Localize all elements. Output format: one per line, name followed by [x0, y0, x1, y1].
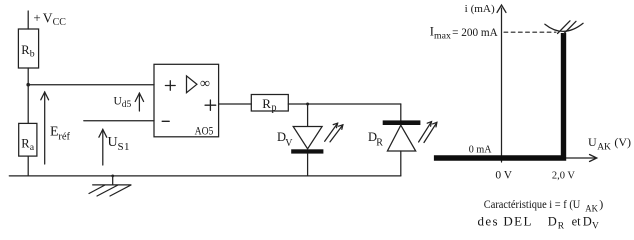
LED DV [277, 104, 343, 176]
svg-text:max: max [434, 30, 451, 41]
svg-text:0 V: 0 V [495, 169, 512, 181]
caption line 2 [478, 213, 600, 231]
svg-text:0 mA: 0 mA [469, 144, 492, 156]
svg-text:+: + [33, 10, 40, 25]
svg-text:U: U [108, 135, 118, 150]
svg-text:V: V [592, 221, 599, 231]
svg-text:E: E [50, 125, 59, 140]
svg-text:des DEL: des DEL [478, 213, 532, 228]
resistor Rp [251, 95, 288, 114]
caption line 1 [484, 197, 603, 214]
wire to + input [28, 84, 154, 86]
arrow US1 [99, 129, 130, 165]
svg-text:i (mA): i (mA) [465, 3, 495, 15]
LED DR [368, 104, 437, 176]
characteristic curve thick line [434, 33, 564, 158]
wire divider [27, 68, 29, 123]
label Imax = 200 mA [430, 25, 499, 42]
ground [89, 175, 131, 197]
svg-text:V: V [285, 138, 293, 149]
svg-text:a: a [30, 142, 35, 153]
svg-text:d5: d5 [122, 100, 132, 110]
op-amp AO5 [154, 64, 219, 137]
resistor Rb [18, 29, 38, 68]
svg-text:CC: CC [53, 17, 67, 28]
svg-text:p: p [272, 103, 277, 114]
axis i (mA) [465, 3, 506, 162]
scribble limit mark [545, 21, 583, 34]
svg-text:b: b [30, 49, 35, 60]
svg-text:et: et [572, 214, 582, 228]
svg-text:R: R [376, 137, 383, 148]
wire Ra to rail [27, 156, 29, 176]
wire top rail [288, 103, 401, 105]
arrow Ud5 [114, 93, 144, 111]
svg-text:V: V [43, 10, 53, 25]
svg-text:2,0 V: 2,0 V [552, 169, 575, 181]
svg-text:U: U [588, 135, 597, 149]
svg-text:R: R [558, 221, 565, 231]
svg-text:réf: réf [58, 131, 70, 142]
wire to - input [84, 120, 154, 122]
arrow Eréf [41, 92, 71, 164]
svg-text:= 200 mA: = 200 mA [452, 27, 498, 39]
wire bottom rail [9, 175, 401, 177]
svg-text:Caractéristique i = f (U: Caractéristique i = f (U [484, 197, 581, 211]
svg-text:(V): (V) [614, 135, 631, 149]
svg-text:D: D [583, 214, 592, 228]
svg-text:): ) [599, 197, 603, 211]
svg-text:R: R [262, 96, 271, 111]
svg-text:AO5: AO5 [195, 124, 214, 138]
svg-text:∞: ∞ [200, 76, 210, 91]
svg-text:D: D [548, 214, 557, 228]
power +VCC [28, 10, 66, 29]
axis UAK (V) [564, 135, 632, 162]
svg-text:S1: S1 [118, 141, 130, 153]
node DV tap [306, 103, 309, 106]
resistor Ra [19, 123, 37, 156]
wire op-amp output [219, 103, 252, 105]
dashed Imax level [504, 31, 556, 33]
svg-text:AK: AK [597, 143, 611, 153]
svg-text:AK: AK [585, 204, 598, 214]
node divider tap [26, 83, 30, 87]
